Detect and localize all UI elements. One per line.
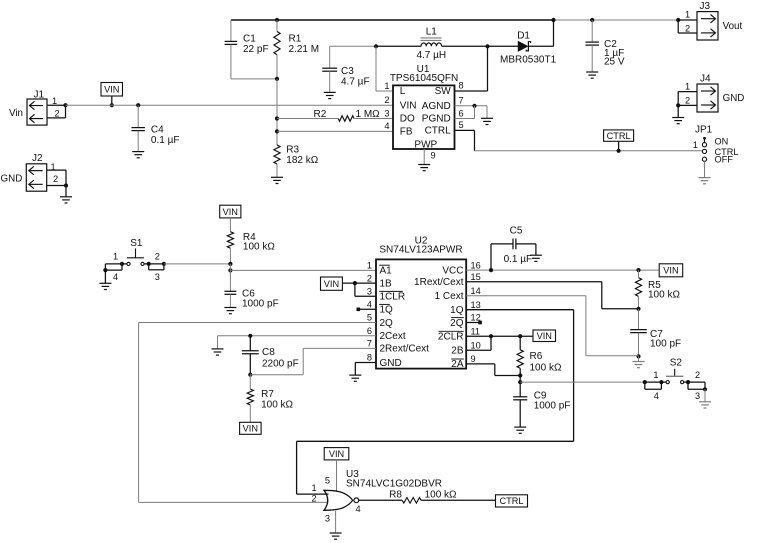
svg-text:3: 3 [695, 391, 700, 401]
svg-text:J2: J2 [32, 153, 43, 164]
svg-text:2Rext/Cext: 2Rext/Cext [380, 344, 430, 355]
svg-text:2: 2 [695, 370, 700, 380]
svg-text:8: 8 [459, 81, 464, 91]
svg-text:PGND: PGND [422, 114, 451, 125]
svg-text:CTRL: CTRL [425, 125, 452, 136]
svg-text:1Q: 1Q [380, 305, 394, 316]
svg-text:182 kΩ: 182 kΩ [286, 155, 318, 166]
svg-text:2: 2 [384, 95, 389, 105]
svg-text:2: 2 [685, 24, 690, 34]
svg-text:J1: J1 [34, 90, 45, 101]
svg-text:1000 pF: 1000 pF [534, 401, 571, 412]
svg-text:11: 11 [471, 326, 481, 336]
svg-text:SN74LV123APWR: SN74LV123APWR [379, 244, 462, 255]
svg-text:C4: C4 [151, 125, 164, 136]
svg-text:J3: J3 [700, 1, 711, 12]
svg-text:SN74LVC1G02DBVR: SN74LVC1G02DBVR [346, 479, 442, 490]
svg-text:2Cext: 2Cext [380, 331, 406, 342]
svg-text:1: 1 [685, 10, 690, 20]
svg-text:2A: 2A [451, 359, 464, 370]
svg-text:3: 3 [325, 514, 330, 524]
svg-text:GND: GND [380, 358, 402, 369]
svg-text:3: 3 [367, 287, 372, 297]
svg-text:15: 15 [471, 272, 481, 282]
svg-text:0.1 µF: 0.1 µF [504, 254, 533, 265]
svg-text:1Rext/Cext: 1Rext/Cext [414, 277, 464, 288]
svg-text:1 Cext: 1 Cext [435, 291, 464, 302]
svg-text:2: 2 [685, 96, 690, 106]
svg-text:22 pF: 22 pF [243, 44, 269, 55]
svg-text:25 V: 25 V [604, 57, 625, 68]
svg-text:100 kΩ: 100 kΩ [243, 242, 275, 253]
svg-text:2Q: 2Q [450, 318, 464, 329]
svg-text:R7: R7 [261, 389, 274, 400]
svg-text:4.7 µH: 4.7 µH [416, 50, 446, 61]
svg-text:GND: GND [1, 174, 23, 185]
svg-text:2200 pF: 2200 pF [262, 359, 299, 370]
svg-text:100 kΩ: 100 kΩ [261, 400, 293, 411]
svg-text:2Q: 2Q [380, 318, 394, 329]
svg-text:2B: 2B [451, 346, 464, 357]
svg-text:3: 3 [384, 108, 389, 118]
svg-text:4: 4 [113, 272, 118, 282]
svg-text:CTRL: CTRL [500, 496, 524, 506]
svg-text:4.7 µF: 4.7 µF [341, 77, 370, 88]
svg-text:C3: C3 [341, 66, 354, 77]
svg-text:4: 4 [384, 121, 389, 131]
svg-text:2: 2 [55, 109, 60, 119]
svg-text:16: 16 [471, 260, 481, 270]
svg-text:C1: C1 [243, 34, 256, 45]
svg-text:1000 pF: 1000 pF [242, 299, 279, 310]
svg-text:SW: SW [435, 86, 452, 97]
svg-text:VCC: VCC [442, 265, 463, 276]
svg-text:4: 4 [654, 391, 659, 401]
svg-text:9: 9 [431, 151, 436, 161]
svg-text:R3: R3 [286, 145, 299, 156]
svg-text:5: 5 [367, 313, 372, 323]
svg-text:5: 5 [325, 476, 330, 486]
svg-text:0.1 µF: 0.1 µF [151, 135, 180, 146]
svg-text:2: 2 [53, 174, 58, 184]
svg-text:R8: R8 [389, 490, 402, 501]
svg-text:1: 1 [367, 260, 372, 270]
svg-text:VIN: VIN [324, 279, 339, 289]
svg-text:VIN: VIN [537, 331, 552, 341]
svg-text:FB: FB [400, 126, 413, 137]
svg-text:2: 2 [367, 273, 372, 283]
svg-text:3: 3 [155, 272, 160, 282]
svg-text:1: 1 [653, 370, 658, 380]
svg-text:4: 4 [356, 504, 361, 514]
svg-text:Vout: Vout [723, 21, 743, 32]
svg-text:ON: ON [715, 136, 729, 146]
svg-text:1: 1 [52, 96, 57, 106]
svg-text:2CLR: 2CLR [438, 332, 464, 343]
svg-text:S2: S2 [670, 358, 683, 369]
svg-text:7: 7 [459, 96, 464, 106]
svg-text:L: L [400, 86, 406, 97]
svg-text:VIN: VIN [329, 449, 344, 459]
svg-text:D1: D1 [517, 31, 530, 42]
svg-text:1: 1 [693, 140, 698, 150]
svg-text:6: 6 [367, 326, 372, 336]
svg-text:VIN: VIN [663, 266, 678, 276]
svg-text:R2: R2 [314, 109, 327, 120]
svg-text:C5: C5 [510, 226, 523, 237]
svg-text:OFF: OFF [715, 155, 734, 165]
svg-text:100 pF: 100 pF [650, 339, 681, 350]
svg-text:S1: S1 [130, 238, 143, 249]
svg-text:J4: J4 [700, 74, 711, 85]
svg-text:1B: 1B [380, 278, 393, 289]
svg-text:CTRL: CTRL [607, 131, 631, 141]
svg-text:1Q: 1Q [450, 305, 464, 316]
svg-text:8: 8 [367, 353, 372, 363]
svg-text:10: 10 [471, 340, 481, 350]
svg-text:R6: R6 [530, 351, 543, 362]
svg-text:1: 1 [685, 82, 690, 92]
svg-text:DO: DO [400, 114, 415, 125]
svg-text:A1: A1 [380, 265, 393, 276]
svg-text:1 MΩ: 1 MΩ [356, 109, 381, 120]
svg-text:13: 13 [471, 300, 481, 310]
svg-text:VIN: VIN [400, 100, 417, 111]
svg-text:5: 5 [459, 120, 464, 130]
svg-text:L1: L1 [426, 27, 438, 38]
svg-text:AGND: AGND [422, 101, 451, 112]
svg-text:Vin: Vin [9, 108, 23, 119]
svg-text:7: 7 [367, 339, 372, 349]
svg-text:GND: GND [723, 93, 745, 104]
svg-text:VIN: VIN [223, 207, 238, 217]
svg-text:PWP: PWP [414, 140, 437, 151]
svg-text:2: 2 [311, 494, 316, 504]
svg-text:100 kΩ: 100 kΩ [530, 363, 562, 374]
svg-text:2.21 M: 2.21 M [289, 44, 320, 55]
svg-text:100 kΩ: 100 kΩ [648, 290, 680, 301]
svg-text:1: 1 [311, 483, 316, 493]
svg-text:TPS61045QFN: TPS61045QFN [390, 73, 458, 84]
svg-text:VIN: VIN [243, 424, 258, 434]
svg-text:1: 1 [384, 81, 389, 91]
svg-text:1: 1 [113, 252, 118, 262]
svg-text:14: 14 [471, 286, 481, 296]
svg-text:100 kΩ: 100 kΩ [425, 490, 457, 501]
svg-text:C8: C8 [262, 347, 275, 358]
svg-text:JP1: JP1 [695, 125, 713, 136]
svg-text:2: 2 [155, 252, 160, 262]
svg-text:6: 6 [459, 108, 464, 118]
svg-text:MBR0530T1: MBR0530T1 [500, 54, 557, 65]
svg-text:VIN: VIN [104, 85, 119, 95]
svg-text:R1: R1 [289, 34, 302, 45]
svg-text:4: 4 [367, 300, 372, 310]
svg-text:1CLR: 1CLR [380, 292, 406, 303]
svg-text:9: 9 [471, 354, 476, 364]
